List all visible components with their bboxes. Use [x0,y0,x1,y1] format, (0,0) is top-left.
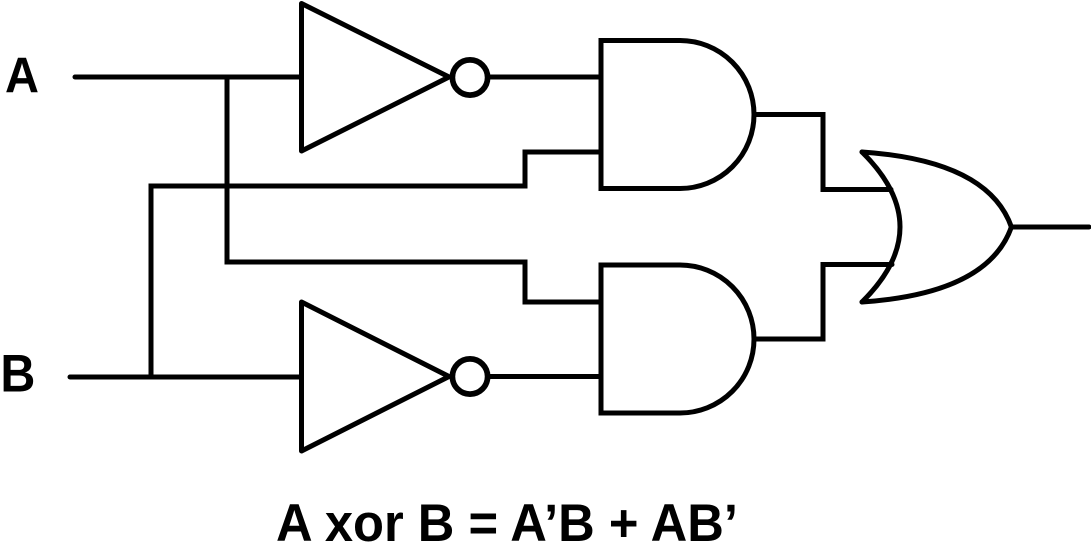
svg-text:A xor B = A’B + AB’: A xor B = A’B + AB’ [276,494,738,553]
svg-text:A: A [5,48,39,104]
svg-text:B: B [0,345,35,404]
